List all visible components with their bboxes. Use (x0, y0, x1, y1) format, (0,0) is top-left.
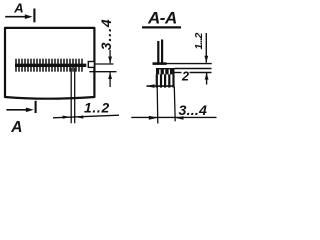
svg-text:1...2: 1...2 (193, 33, 205, 50)
wire hanging from strip (two verticals) (71, 68, 75, 124)
white end box at strip right end (88, 62, 94, 68)
comb strip band (15, 64, 86, 67)
svg-text:A: A (13, 0, 23, 15)
five wires below plate (157, 74, 174, 87)
pins above plate (section) (157, 41, 159, 63)
svg-text:A: A (10, 119, 22, 134)
right side thickness dimension 1...2 (205, 33, 207, 63)
svg-text:1..2: 1..2 (84, 101, 110, 116)
svg-text:2: 2 (181, 70, 189, 84)
bottom dimension line 1..2 (53, 115, 119, 118)
plate bar outline part (175, 68, 212, 70)
3...4 extension lines (left view, right side) (96, 63, 114, 65)
flange / wire line on plate (153, 62, 167, 65)
svg-text:3...4: 3...4 (179, 103, 208, 119)
A-A title (142, 26, 181, 28)
section arrow bottom A (6, 109, 29, 111)
3...4 vertical dimension arrows (left view) (109, 50, 111, 63)
bottom dimension line 3...4 (section) (131, 116, 216, 118)
section arrow top A (5, 16, 28, 18)
comb strip teeth ticks (16, 59, 82, 72)
leader line with arrow for wire dia 2 (147, 85, 175, 87)
svg-text:A-A: A-A (147, 9, 177, 28)
extension lines to bottom dimension (156, 87, 159, 124)
plate outline (left view rectangle) (5, 28, 94, 99)
svg-text:3...4: 3...4 (98, 18, 114, 50)
plate bar solid section (156, 68, 175, 74)
